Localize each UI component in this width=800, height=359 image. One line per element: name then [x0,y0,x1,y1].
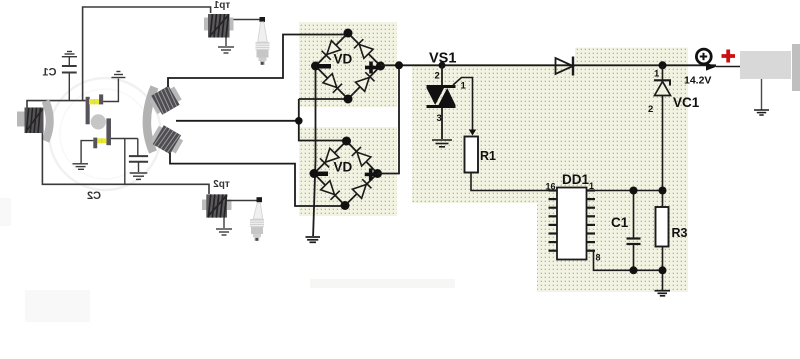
svg-text:1: 1 [654,69,660,80]
wire tr2 to spark plug 2 [227,200,257,202]
faint paper smudges [0,198,455,322]
capacitor C2 [137,139,139,157]
wire charge coil bottom to bridge VD2 bottom [170,153,345,206]
svg-text:16: 16 [545,182,555,192]
node R3 top [659,187,667,195]
minus VD2 [317,172,328,177]
svg-text:2: 2 [648,104,653,115]
diode VD1 bottom-left [323,74,342,93]
svg-text:DD1: DD1 [562,172,589,187]
node R3 bottom [659,266,667,274]
wire VS1 cathode to ground [441,108,443,139]
wire breaker2 fixed contact to ground [81,141,93,164]
ground breaker2 [73,164,89,170]
charge coil bottom [149,123,185,156]
svg-text:1: 1 [589,181,594,191]
zener diode VC1 [659,61,667,69]
diode VD2 top-left [320,148,339,167]
plus terminal circle [696,49,711,64]
wire bus to VS1 [441,65,443,85]
plus VD2 [365,168,377,180]
flywheel circle [49,78,161,190]
wire DD1 pin8 down and right [594,251,663,271]
source coil pole arc [46,101,50,141]
wire breaker2 arm right [111,138,138,140]
wire source coil top [27,101,86,109]
dotted background patch bridge VD2 [299,127,397,216]
svg-text:VD: VD [334,160,353,175]
breaker points 1 [86,97,90,125]
arrowhead on bus [706,63,717,71]
wire tr1 to spark plug 1 [234,19,260,21]
diode VD1 top-right [354,39,373,58]
node dots VD2 [342,137,351,146]
ground below tr1 [225,38,227,47]
svg-text:VD: VD [334,52,353,67]
node junction center tap [295,117,303,125]
plus VD1 [365,62,377,74]
wire bridge1 bottom node left [299,98,348,100]
ground below R3 [655,291,671,296]
svg-text:тр2: тр2 [213,179,230,190]
resistor R1 [465,137,479,173]
svg-text:C2: C2 [87,190,101,202]
node C1 top [630,187,638,195]
wire bridge2 plus output up to bus [378,65,400,173]
red plus [722,50,736,63]
capacitor C1 (filter, right section) [633,191,635,239]
spark plug 1 [256,22,270,65]
dotted background patch main right [412,48,688,293]
charge coil top [148,83,184,116]
spark plug 2 [250,203,264,241]
svg-text:14.2V: 14.2V [684,75,711,87]
ground below tr2 [223,218,225,228]
wire VS1 gate to R1 [453,78,473,130]
diode VD1 top-left [322,41,341,60]
node dots VD1 [344,29,353,38]
svg-text:3: 3 [437,113,442,124]
svg-text:тр1: тр1 [213,0,230,11]
svg-text:C1: C1 [611,215,629,230]
wire junction column to bridge2 top [299,99,347,141]
node bus junction [395,61,403,69]
wire breaker1 fixed contact to ground [103,79,118,102]
node C1 bottom [630,266,638,274]
wire R3 bottom to ground [662,247,664,291]
ground bridge column [306,237,321,242]
node bus VS1 tap [439,62,446,69]
ground above C1 [62,52,77,67]
bridge rectifier VD2 [314,141,378,206]
bridge rectifier VD1 [316,33,381,99]
pins DD1 [549,191,596,251]
breaker points 2 [106,118,111,145]
svg-text:R1: R1 [480,149,496,163]
svg-text:R3: R3 [672,226,688,240]
wire DD1 pin1 right [595,190,663,192]
wire charge coil top to bridge VD1 top [168,35,348,88]
svg-text:1: 1 [461,81,467,92]
svg-text:8: 8 [596,253,601,263]
diode on bus [556,58,574,74]
svg-text:VC1: VC1 [673,95,700,110]
thyristor VS1 [427,85,456,88]
wire branch down to bottom rail [124,139,126,185]
wire VC1 cathode down to R3 top [662,96,664,208]
svg-text:2: 2 [435,71,440,82]
diode VD1 bottom-right [355,72,374,91]
source coil (left of flywheel) [17,112,25,127]
diode VD2 top-right [352,147,371,166]
svg-text:C1: C1 [42,67,56,79]
ground VS1 [432,140,452,147]
cam circle [91,114,106,129]
diode VD2 bottom-left [321,181,340,200]
wire top rail to tr1 [83,7,211,101]
arrowhead gate wire into R1 [469,130,476,136]
minus VD1 [320,64,332,69]
dotted background patch bridge VD1 [299,22,397,107]
ignition coil tr1 [204,18,234,31]
svg-text:VS1: VS1 [429,51,456,67]
wire center tap to junction [176,120,299,122]
battery block [740,51,791,79]
wire bridge1 left node down to ground (long) [313,66,315,236]
wire source coil bottom to bottom rail [42,133,209,194]
main bus wire [381,64,717,66]
diode VD2 bottom-right [352,179,371,198]
wire R1 bottom to DD1 pin 16 [471,173,550,191]
charge coils pole arc (right of flywheel) [147,87,155,152]
ignition coil tr2 [202,200,232,211]
IC DD1 [557,188,587,260]
resistor R3 [656,207,669,247]
ground below C2 [130,173,148,179]
ground (inverted) breaker1 [111,72,125,78]
ground below battery [754,110,769,115]
capacitor C1 (left, mirrored label) [62,66,77,73]
